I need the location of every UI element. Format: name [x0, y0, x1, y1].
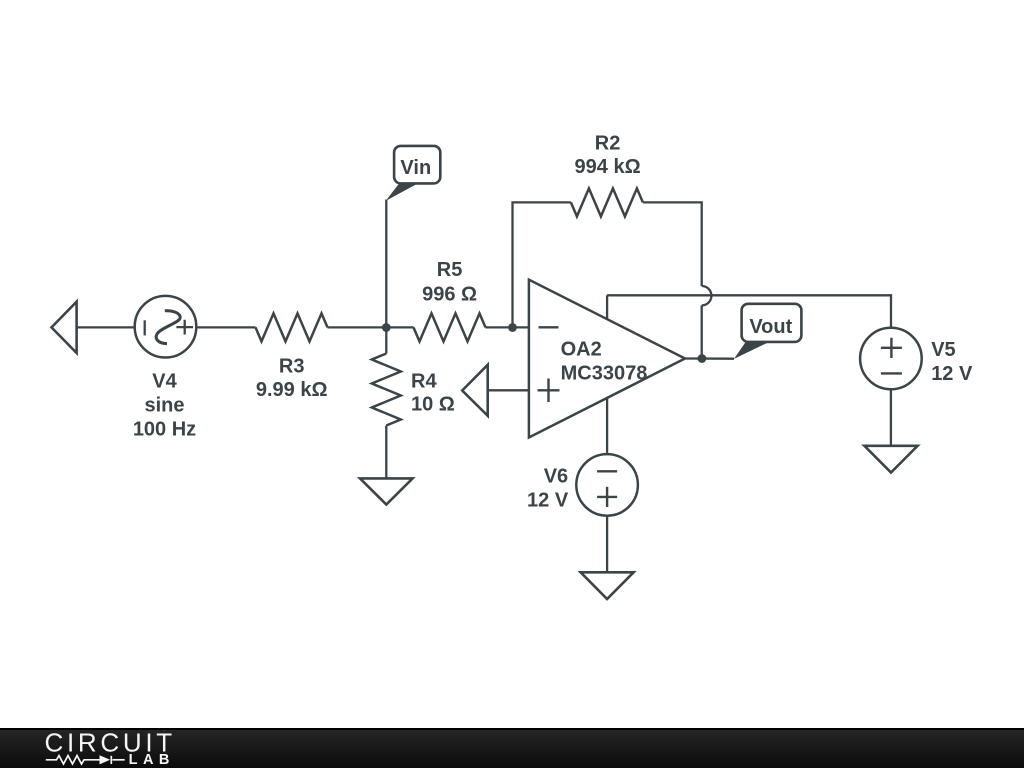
op-amp inverting input minus sign: [539, 326, 559, 328]
wire op-amp output: [685, 357, 734, 360]
node flag Vout pointer: [734, 342, 768, 359]
resistor R3: [256, 313, 328, 341]
ground (left arrow at non-inverting input): [462, 365, 488, 416]
node flag Vin box: [394, 146, 440, 184]
V6 minus sign: [597, 470, 617, 472]
svg-text:Vout: Vout: [749, 316, 792, 338]
V4 plus sign: [176, 320, 193, 335]
wire ground arrow to op-amp plus input: [488, 389, 529, 391]
ground (below V6): [581, 572, 634, 599]
svg-text:12 V: 12 V: [931, 363, 973, 385]
op-amp OA2 triangle: [529, 280, 685, 438]
svg-text:996 Ω: 996 Ω: [422, 284, 477, 306]
svg-text:100 Hz: 100 Hz: [133, 418, 196, 440]
svg-text:R3: R3: [279, 355, 305, 377]
footer bar: [0, 728, 1024, 768]
svg-text:V6: V6: [544, 465, 568, 487]
node flag Vout box: [742, 304, 802, 342]
wire hop to output node: [701, 305, 703, 358]
wire hop (feedback crosses V+ rail): [702, 286, 712, 305]
node junction at inverting input: [508, 323, 517, 332]
op-amp V+ pin stub: [606, 295, 608, 319]
svg-text:R2: R2: [595, 133, 621, 155]
svg-text:LAB: LAB: [129, 752, 175, 768]
op-amp non-inverting input plus sign: [538, 379, 560, 403]
svg-text:994 kΩ: 994 kΩ: [575, 156, 641, 178]
node junction at Vin/R3/R4/R5: [382, 323, 391, 332]
V4 sine symbol: [156, 311, 180, 344]
V6 plus sign: [597, 487, 617, 507]
wire V+ rail (op-amp to V5): [607, 295, 891, 328]
CircuitLab logo resistor-diode glyph: [46, 756, 125, 764]
svg-text:V5: V5: [931, 339, 955, 361]
wire R2 to feedback right leg: [643, 202, 702, 286]
ground (below V5): [864, 446, 917, 473]
voltage source V4 (sine): [135, 296, 197, 358]
svg-text:12 V: 12 V: [527, 490, 569, 512]
svg-text:OA2: OA2: [561, 339, 602, 361]
svg-text:R5: R5: [437, 259, 463, 281]
voltage source V5: [860, 328, 922, 390]
wire V5 to ground: [890, 389, 892, 446]
V4 minus terminal bar: [144, 320, 146, 335]
V5 plus sign: [881, 338, 902, 358]
svg-text:10 Ω: 10 Ω: [411, 394, 455, 416]
ground (left arrow at V4 negative terminal): [52, 302, 77, 353]
V5 minus sign: [881, 372, 902, 374]
wire R4 to ground: [385, 426, 387, 479]
svg-text:R4: R4: [411, 370, 437, 392]
wire R3 to node Vin: [328, 326, 387, 328]
svg-text:V4: V4: [152, 370, 177, 392]
wire V4 to R3: [196, 326, 255, 328]
voltage source V6: [576, 454, 638, 516]
svg-text:Vin: Vin: [400, 157, 431, 179]
wire V6 to ground: [606, 516, 608, 573]
svg-text:9.99 kΩ: 9.99 kΩ: [256, 379, 328, 401]
resistor R2 (feedback): [571, 188, 643, 216]
node junction at output: [698, 354, 707, 363]
resistor R5: [414, 313, 486, 341]
svg-text:MC33078: MC33078: [561, 362, 648, 384]
svg-text:sine: sine: [144, 395, 184, 417]
resistor R4 (to ground): [385, 328, 387, 354]
ground (below R4): [360, 478, 413, 504]
node flag Vin pointer: [386, 183, 417, 201]
wire node to Vin flag: [385, 200, 387, 328]
wire feedback left leg (node to R2): [513, 202, 571, 327]
op-amp V- pin stub: [606, 398, 608, 453]
wire ground to V4: [77, 326, 135, 328]
wire node to R5: [386, 326, 413, 328]
wire R5 to inverting node: [486, 326, 529, 328]
